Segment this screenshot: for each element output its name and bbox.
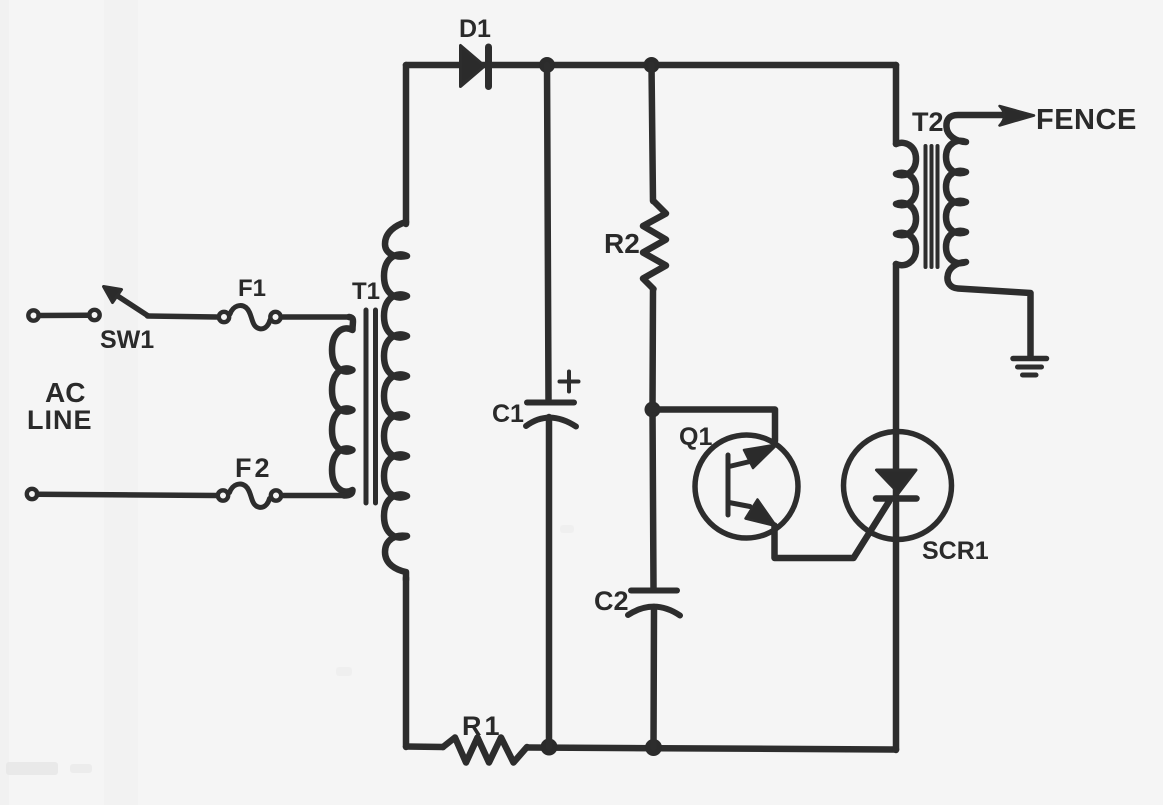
svg-text:F1: F1	[238, 275, 266, 302]
svg-text:C2: C2	[594, 586, 629, 616]
svg-text:R2: R2	[604, 228, 640, 259]
svg-text:SW1: SW1	[100, 326, 154, 354]
svg-text:LINE: LINE	[27, 405, 93, 435]
svg-text:T2: T2	[912, 107, 944, 137]
svg-text:F2: F2	[235, 453, 273, 483]
svg-text:AC: AC	[45, 377, 85, 408]
svg-text:R1: R1	[462, 711, 503, 741]
svg-text:Q1: Q1	[679, 423, 712, 451]
svg-text:C1: C1	[492, 400, 524, 428]
svg-text:T1: T1	[352, 278, 380, 305]
svg-text:SCR1: SCR1	[922, 537, 989, 565]
svg-text:FENCE: FENCE	[1036, 104, 1137, 136]
svg-text:D1: D1	[459, 15, 491, 43]
